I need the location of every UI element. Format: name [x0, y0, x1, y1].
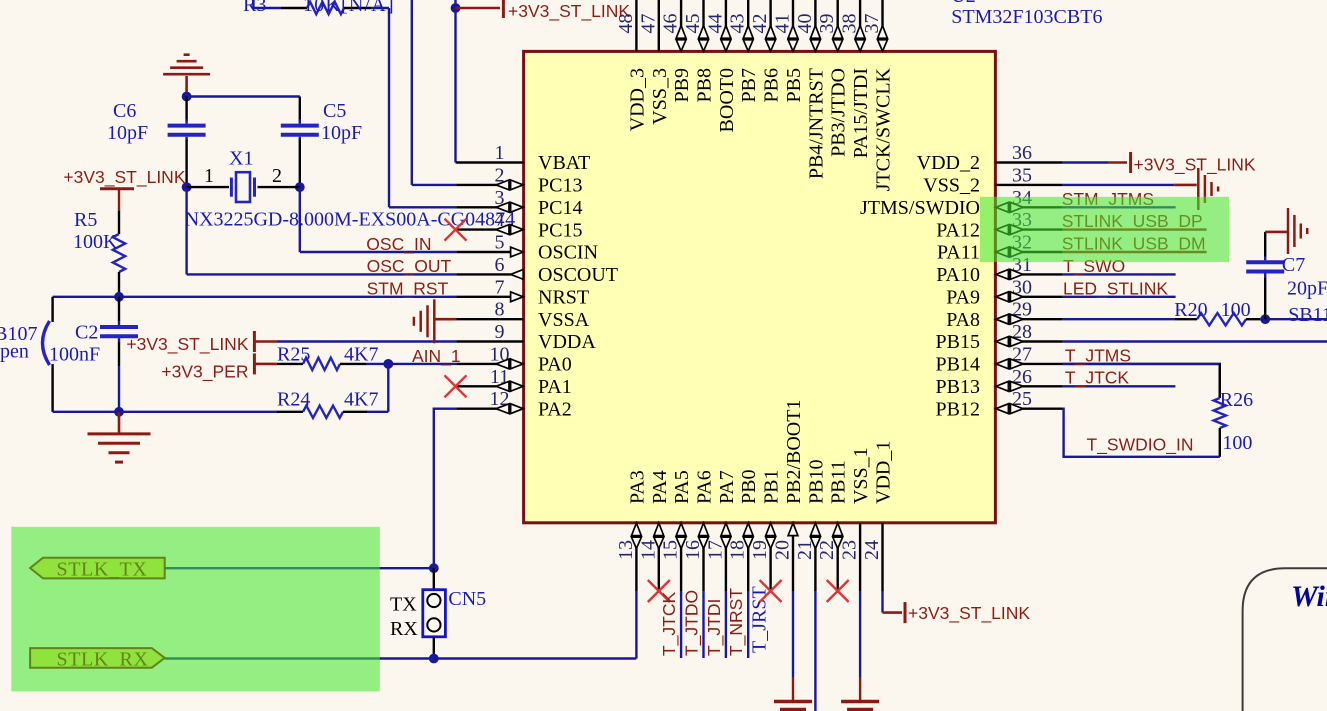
- svg-text:PA15/JTDI: PA15/JTDI: [850, 68, 872, 158]
- pin 22 PB11 (bottom): [837, 523, 839, 591]
- wire SB107 loop: [53, 296, 119, 298]
- svg-text:10pF: 10pF: [107, 122, 148, 144]
- svg-text:PA7: PA7: [716, 470, 738, 504]
- svg-text:T_SWDIO_IN: T_SWDIO_IN: [1087, 434, 1194, 455]
- wire R3 to pin PC14: [388, 8, 390, 207]
- pin 28 PB15 (right): [995, 340, 1062, 342]
- wire R24 to AIN_1: [387, 364, 389, 412]
- svg-text:PB1: PB1: [761, 470, 783, 504]
- node crystal top: [182, 92, 192, 102]
- pin 12 PA2 (left): [456, 408, 523, 410]
- IC U2 STM32F103CBT6 body: [524, 51, 996, 522]
- svg-text:48: 48: [615, 14, 637, 34]
- pin 9 VDDA (left): [456, 340, 523, 342]
- svg-text:VDD_1: VDD_1: [873, 441, 895, 504]
- svg-text:VBAT: VBAT: [538, 152, 590, 174]
- svg-text:PB13: PB13: [936, 376, 980, 398]
- wire C5 to X1: [299, 140, 301, 188]
- svg-text:PB14: PB14: [936, 354, 980, 376]
- power +3V3_ST_LINK (VDD_2): [1063, 161, 1108, 163]
- pin 35 VSS_2 (right): [995, 184, 1062, 186]
- svg-text:NRST: NRST: [538, 287, 589, 309]
- resistor R26 100: [1219, 364, 1221, 398]
- svg-text:CN5: CN5: [448, 588, 486, 610]
- highlight (right: STM_JTMS / STLINK_USB_DP / STLINK_USB_DM): [980, 197, 1229, 262]
- svg-text:C2: C2: [75, 322, 98, 344]
- pin 41 PB5 (top): [792, 0, 794, 51]
- svg-text:4K7: 4K7: [344, 389, 378, 411]
- pin 1 VBAT (left): [456, 161, 523, 163]
- svg-text:1: 1: [495, 142, 505, 164]
- svg-text:1: 1: [204, 165, 214, 187]
- svg-text:100K: 100K: [73, 231, 118, 253]
- svg-text:PB0: PB0: [738, 470, 760, 504]
- net OSC_OUT wire: [185, 187, 187, 274]
- svg-text:23: 23: [839, 540, 861, 560]
- svg-text:VSS_3: VSS_3: [649, 68, 671, 125]
- svg-text:PA2: PA2: [538, 398, 572, 420]
- svg-text:T_JTMS: T_JTMS: [1065, 345, 1131, 366]
- pin 25 PB12 (right): [995, 408, 1062, 410]
- svg-text:+3V3_ST_LINK: +3V3_ST_LINK: [508, 1, 630, 22]
- svg-text:+3V3_ST_LINK: +3V3_ST_LINK: [63, 167, 185, 188]
- no-connect X pin PB11: [827, 580, 849, 602]
- svg-text:VDD_2: VDD_2: [917, 152, 980, 174]
- node AIN_1 junction: [383, 359, 393, 369]
- svg-text:100nF: 100nF: [49, 344, 100, 366]
- wire PA8 to SB11: [1265, 318, 1327, 320]
- pin 5 OSCIN (left): [456, 251, 523, 253]
- capacitor C5 10pF: [281, 124, 319, 128]
- svg-text:+3V3_ST_LINK: +3V3_ST_LINK: [126, 334, 248, 355]
- pin 10 PA0 (left): [456, 363, 523, 365]
- svg-text:PA0: PA0: [538, 354, 572, 376]
- svg-text:SB11: SB11: [1288, 304, 1327, 326]
- wire pin 17 / label T_JTDI: [725, 591, 727, 658]
- net T_JTCK wire: [1063, 385, 1176, 387]
- net PA2 wire: [434, 409, 456, 569]
- svg-text:8: 8: [495, 299, 505, 321]
- svg-text:TX: TX: [390, 593, 417, 615]
- crystal X1: [187, 186, 229, 188]
- svg-text:PB3/JTDO: PB3/JTDO: [828, 68, 850, 157]
- svg-text:JTMS/SWDIO: JTMS/SWDIO: [860, 197, 980, 219]
- svg-text:PB2/BOOT1: PB2/BOOT1: [783, 400, 805, 504]
- resistor R20 100: [1063, 318, 1175, 320]
- svg-text:PC15: PC15: [538, 219, 582, 241]
- power +3V3_ST_LINK (top): [456, 7, 501, 10]
- net STM_JTMS wire: [1063, 206, 1176, 208]
- svg-text:T_JRST: T_JRST: [749, 586, 771, 653]
- svg-text:C5: C5: [323, 100, 346, 122]
- port STLK_RX: [30, 648, 165, 668]
- capacitor C2 100nF: [118, 297, 120, 321]
- svg-text:AIN_1: AIN_1: [412, 346, 461, 367]
- svg-text:R3: R3: [243, 0, 266, 16]
- wire to pin PC13: [411, 0, 413, 185]
- wire pin 16 / label T_JTDO: [702, 591, 704, 658]
- svg-text:Wire: Wire: [1291, 580, 1327, 613]
- highlight (bottom left: STLK_TX / STLK_RX): [11, 527, 380, 692]
- resistor R25 4K7: [277, 363, 303, 365]
- svg-text:PA9: PA9: [946, 287, 980, 309]
- svg-text:PA10: PA10: [936, 264, 980, 286]
- svg-text:20: 20: [772, 540, 794, 560]
- title block border: [1243, 568, 1327, 711]
- svg-text:OSC_OUT: OSC_OUT: [367, 256, 452, 277]
- wire pin 23 VSS_1 to ground: [859, 591, 861, 677]
- svg-text:STM32F103CBT6: STM32F103CBT6: [951, 6, 1102, 28]
- wire pin 20 PB2/BOOT1 to ground: [792, 591, 794, 677]
- ground (C7, sideways): [1265, 231, 1288, 234]
- pin 29 PA8 (right): [995, 318, 1062, 320]
- net STM_RST wire: [119, 296, 456, 298]
- pin 37 JTCK/SWCLK (top): [881, 0, 883, 51]
- svg-text:PA6: PA6: [694, 470, 716, 504]
- svg-text:PC13: PC13: [538, 175, 582, 197]
- pin 43 PB7 (top): [747, 0, 749, 51]
- wire pin 18 / label T_NRST: [747, 591, 749, 658]
- svg-text:OSCIN: OSCIN: [538, 242, 598, 264]
- svg-text:VSSA: VSSA: [538, 309, 590, 331]
- svg-text:C7: C7: [1282, 254, 1305, 276]
- wire STLK_RX to PA3: [434, 657, 637, 659]
- pin 7 NRST (left): [456, 296, 523, 298]
- pin 30 PA9 (right): [995, 296, 1062, 298]
- ground (pin 20): [774, 700, 812, 704]
- pin 38 PA15/JTDI (top): [859, 0, 861, 51]
- pin 17 PA7 (bottom): [725, 523, 727, 591]
- svg-text:PA4: PA4: [649, 470, 671, 504]
- net STLK_RX wire: [165, 657, 434, 659]
- svg-text:35: 35: [1012, 164, 1032, 186]
- pin 15 PA5 (bottom): [680, 523, 682, 591]
- pin 21 PB10 (bottom): [814, 523, 816, 591]
- svg-text:5: 5: [495, 232, 505, 254]
- resistor R5 100K: [113, 234, 125, 272]
- svg-text:100: 100: [1221, 299, 1251, 321]
- svg-text:PB6: PB6: [761, 68, 783, 102]
- no-connect X pin PA4: [648, 580, 670, 602]
- svg-text:PA1: PA1: [538, 376, 572, 398]
- ground (VSSA, sideways): [434, 318, 456, 321]
- svg-text:VSS_1: VSS_1: [850, 447, 872, 504]
- svg-text:PB4/JNTRST: PB4/JNTRST: [805, 68, 827, 179]
- pin 47 VSS_3 (top): [658, 0, 660, 51]
- svg-text:PB9: PB9: [671, 68, 693, 102]
- svg-text:36: 36: [1012, 142, 1032, 164]
- svg-text:C6: C6: [113, 100, 136, 122]
- node VBAT/+3V3 junction: [454, 0, 456, 163]
- svg-text:STM_RST: STM_RST: [367, 278, 449, 299]
- pin 31 PA10 (right): [995, 273, 1062, 275]
- svg-text:+3V3_ST_LINK: +3V3_ST_LINK: [1134, 155, 1256, 176]
- svg-text:10K[N/A]: 10K[N/A]: [303, 0, 395, 16]
- pin 26 PB13 (right): [995, 385, 1062, 387]
- svg-text:R25: R25: [277, 344, 310, 366]
- solder bridge SB107 arc: [43, 321, 50, 365]
- svg-text:PC14: PC14: [538, 197, 582, 219]
- ground (pin 23): [841, 700, 879, 704]
- net AIN_1 wire: [388, 363, 456, 365]
- net STLK_TX wire: [165, 567, 434, 569]
- no-connect X pin PB1: [760, 580, 782, 602]
- svg-text:PA12: PA12: [936, 219, 980, 241]
- svg-text:R26: R26: [1220, 389, 1253, 411]
- svg-text:PA11: PA11: [937, 242, 980, 264]
- net LED_STLINK wire: [1063, 296, 1176, 298]
- no-connect X pin PA1: [445, 375, 467, 397]
- node STM_RST junction: [114, 292, 124, 302]
- capacitor C6 10pF: [168, 124, 206, 128]
- net STLINK_USB_DM wire: [1063, 251, 1207, 253]
- svg-text:10pF: 10pF: [321, 122, 362, 144]
- svg-text:OSC_IN: OSC_IN: [366, 234, 431, 255]
- net PB15 wire: [1063, 340, 1327, 342]
- svg-text:PA8: PA8: [946, 309, 980, 331]
- svg-text:VSS_2: VSS_2: [923, 175, 980, 197]
- svg-text:+3V3_ST_LINK: +3V3_ST_LINK: [908, 603, 1030, 624]
- svg-text:PB10: PB10: [805, 460, 827, 504]
- pin 42 PB6 (top): [769, 0, 771, 51]
- pin 39 PB3/JTDO (top): [837, 0, 839, 51]
- svg-text:6: 6: [495, 254, 505, 276]
- pin 33 PA12 (right): [995, 228, 1062, 230]
- pin 19 PB1 (bottom): [769, 523, 771, 591]
- pin 48 VDD_3 (top): [635, 0, 637, 51]
- pin 20 PB2/BOOT1 (bottom): [792, 523, 794, 591]
- pin 11 PA1 (left): [456, 385, 523, 387]
- svg-text:PA5: PA5: [671, 470, 693, 504]
- ground (below C2): [118, 412, 121, 434]
- no-connect X pin PC15: [445, 219, 467, 241]
- pin 4 PC15 (left): [456, 228, 523, 230]
- svg-text:R24: R24: [277, 389, 310, 411]
- svg-text:7: 7: [495, 276, 505, 298]
- svg-text:PA3: PA3: [626, 470, 648, 504]
- svg-text:R20: R20: [1174, 299, 1207, 321]
- net STLK_RX / PA3 wire: [635, 591, 637, 659]
- net VDDA wire: [277, 340, 456, 342]
- svg-text:JTCK/SWCLK: JTCK/SWCLK: [873, 67, 895, 191]
- wire pin 21 PB10 (runs off bottom): [814, 591, 816, 711]
- net T_SWO wire: [1063, 273, 1176, 275]
- svg-text:BOOT0: BOOT0: [716, 68, 738, 132]
- wire crystal top loop: [187, 95, 300, 97]
- pin 6 OSCOUT (left): [456, 273, 523, 275]
- svg-text:LED_STLINK: LED_STLINK: [1063, 278, 1168, 299]
- svg-text:+3V3_PER: +3V3_PER: [161, 362, 248, 383]
- svg-text:RX: RX: [390, 618, 418, 640]
- net OSC_IN wire: [299, 187, 301, 252]
- svg-text:4K7: 4K7: [344, 344, 378, 366]
- pin 46 PB9 (top): [680, 0, 682, 51]
- pin 8 VSSA (left): [456, 318, 523, 320]
- pin 45 PB8 (top): [702, 0, 704, 51]
- svg-text:PB5: PB5: [783, 68, 805, 102]
- power +3V3_ST_LINK (VDD_1): [881, 591, 883, 613]
- pin 3 PC14 (left): [456, 206, 523, 208]
- svg-text:R5: R5: [74, 209, 97, 231]
- svg-text:2: 2: [272, 165, 282, 187]
- pin 40 PB4/JNTRST (top): [814, 0, 816, 51]
- svg-text:T_JTCK: T_JTCK: [659, 592, 680, 657]
- svg-text:47: 47: [637, 14, 659, 34]
- pin 18 PB0 (bottom): [747, 523, 749, 591]
- svg-text:PB12: PB12: [936, 398, 980, 420]
- wire C6 to X1: [185, 140, 187, 188]
- resistor R24 4K7: [119, 411, 277, 413]
- svg-text:T_JTDO: T_JTDO: [682, 590, 703, 656]
- svg-text:open: open: [0, 341, 29, 363]
- svg-text:T_JTCK: T_JTCK: [1065, 368, 1130, 389]
- net T_JTMS / R26 wire: [1063, 364, 1220, 398]
- svg-text:VDDA: VDDA: [538, 331, 596, 353]
- svg-text:T_JTDI: T_JTDI: [704, 599, 725, 656]
- svg-text:OSCOUT: OSCOUT: [538, 264, 618, 286]
- pin 32 PA11 (right): [995, 251, 1062, 253]
- svg-text:PB8: PB8: [694, 68, 716, 102]
- svg-text:PB7: PB7: [738, 68, 760, 102]
- node X1 pin1: [182, 182, 192, 192]
- node C2 bottom junction: [114, 407, 124, 417]
- ground (VSS_2, sideways): [1063, 184, 1175, 186]
- svg-text:PB11: PB11: [828, 460, 850, 504]
- net T_SWDIO_IN wire: [1063, 409, 1220, 457]
- net STLINK_USB_DP wire: [1063, 228, 1207, 230]
- node X1 pin2: [295, 182, 305, 192]
- pin 2 PC13 (left): [456, 184, 523, 186]
- pin 44 BOOT0 (top): [725, 0, 727, 51]
- svg-text:24: 24: [861, 540, 883, 560]
- pin 16 PA6 (bottom): [702, 523, 704, 591]
- svg-text:PB15: PB15: [936, 331, 980, 353]
- pin 36 VDD_2 (right): [995, 161, 1062, 163]
- pin 34 JTMS/SWDIO (right): [995, 206, 1062, 208]
- svg-text:9: 9: [495, 321, 505, 343]
- resistor R3 10K[N/A]: [252, 0, 254, 8]
- capacitor C7 20pF: [1264, 278, 1266, 320]
- pin 13 PA3 (bottom): [635, 523, 637, 591]
- pin 24 VDD_1 (bottom): [881, 523, 883, 591]
- port STLK_TX: [30, 558, 165, 579]
- svg-text:VDD_3: VDD_3: [626, 68, 648, 131]
- ground (crystal, inverted earth): [163, 73, 210, 76]
- connector CN5: [433, 568, 435, 590]
- svg-text:100: 100: [1222, 432, 1252, 454]
- wire pin 15 / label T_JTCK: [680, 591, 682, 658]
- svg-text:20pF: 20pF: [1287, 278, 1327, 300]
- node STLK_RX junction: [429, 654, 439, 664]
- svg-text:X1: X1: [229, 147, 253, 169]
- pin 23 VSS_1 (bottom): [859, 523, 861, 591]
- svg-text:T_NRST: T_NRST: [726, 588, 747, 656]
- pin 14 PA4 (bottom): [658, 523, 660, 591]
- pin 27 PB14 (right): [995, 363, 1062, 365]
- node C7 junction: [1260, 314, 1270, 324]
- node STLK_TX junction: [429, 563, 439, 573]
